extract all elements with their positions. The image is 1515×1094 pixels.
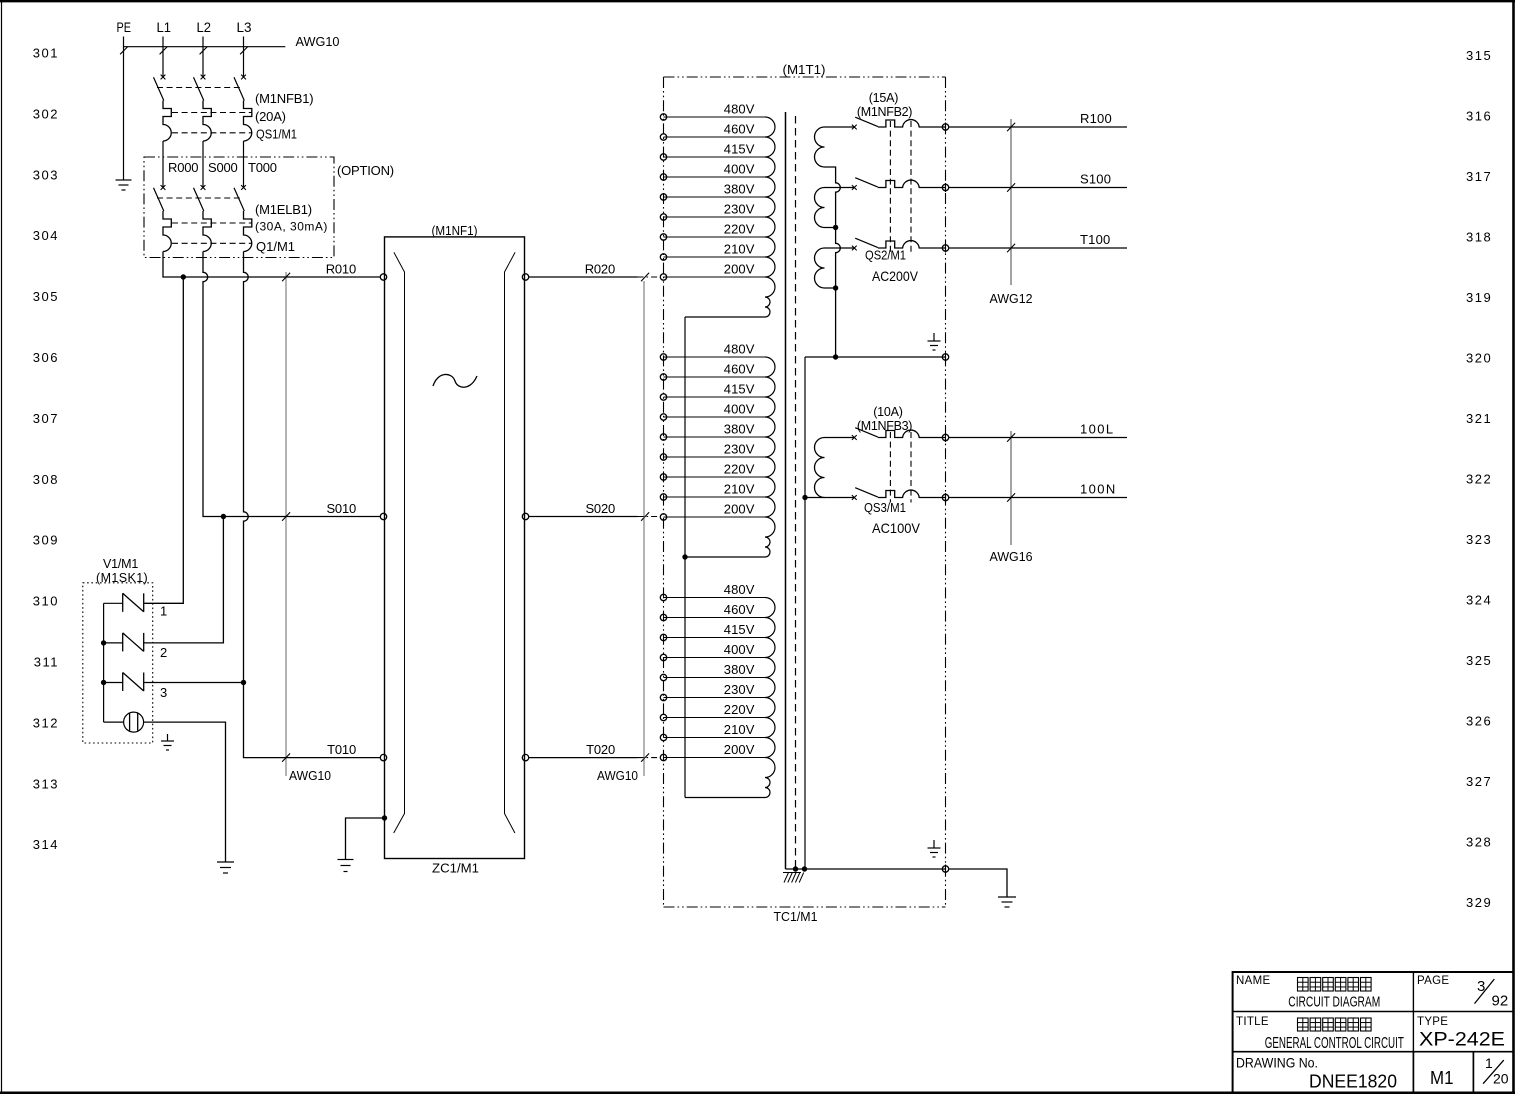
svg-text:307: 307 bbox=[33, 411, 59, 426]
svg-text:220V: 220V bbox=[724, 222, 755, 237]
svg-text:T100: T100 bbox=[1080, 232, 1110, 247]
svg-text:L2: L2 bbox=[197, 20, 212, 35]
svg-text:322: 322 bbox=[1466, 471, 1492, 486]
svg-text:305: 305 bbox=[33, 289, 59, 304]
svg-text:415V: 415V bbox=[724, 142, 755, 157]
svg-text:(M1ELB1): (M1ELB1) bbox=[255, 202, 312, 217]
svg-text:325: 325 bbox=[1466, 653, 1492, 668]
svg-text:400V: 400V bbox=[724, 402, 755, 417]
svg-text:312: 312 bbox=[33, 715, 59, 730]
svg-text:QS2/M1: QS2/M1 bbox=[865, 249, 906, 263]
svg-text:302: 302 bbox=[33, 106, 59, 121]
svg-text:T010: T010 bbox=[327, 742, 356, 757]
svg-text:311: 311 bbox=[34, 655, 59, 670]
svg-text:210V: 210V bbox=[724, 482, 755, 497]
svg-text:ZC1/M1: ZC1/M1 bbox=[432, 861, 479, 876]
svg-text:Q1/M1: Q1/M1 bbox=[256, 239, 295, 254]
svg-text:(M1NFB2): (M1NFB2) bbox=[857, 105, 912, 119]
svg-text:T000: T000 bbox=[248, 160, 277, 175]
svg-text:AWG12: AWG12 bbox=[990, 291, 1033, 306]
svg-text:220V: 220V bbox=[724, 702, 755, 717]
svg-text:327: 327 bbox=[1466, 774, 1492, 789]
svg-text:200V: 200V bbox=[724, 502, 755, 517]
svg-text:AC100V: AC100V bbox=[872, 520, 921, 536]
svg-text:230V: 230V bbox=[724, 202, 755, 217]
svg-text:S000: S000 bbox=[208, 160, 238, 175]
svg-text:L1: L1 bbox=[157, 20, 172, 35]
svg-text:S100: S100 bbox=[1080, 172, 1111, 187]
svg-text:L3: L3 bbox=[237, 20, 252, 35]
svg-text:R020: R020 bbox=[585, 261, 615, 276]
svg-text:380V: 380V bbox=[724, 422, 755, 437]
svg-text:XP-242E: XP-242E bbox=[1419, 1030, 1505, 1051]
svg-text:(M1NF1): (M1NF1) bbox=[432, 223, 478, 238]
svg-text:200V: 200V bbox=[724, 742, 755, 757]
svg-text:TYPE: TYPE bbox=[1417, 1016, 1448, 1028]
svg-text:(M1NFB3): (M1NFB3) bbox=[857, 419, 912, 433]
svg-text:210V: 210V bbox=[724, 242, 755, 257]
svg-text:310: 310 bbox=[33, 594, 59, 609]
svg-text:V1/M1: V1/M1 bbox=[103, 557, 138, 571]
svg-text:92: 92 bbox=[1492, 992, 1509, 1009]
svg-text:CIRCUIT DIAGRAM: CIRCUIT DIAGRAM bbox=[1288, 994, 1380, 1011]
svg-text:303: 303 bbox=[33, 167, 59, 182]
svg-text:220V: 220V bbox=[724, 462, 755, 477]
svg-text:315: 315 bbox=[1466, 48, 1492, 63]
svg-text:460V: 460V bbox=[724, 122, 755, 137]
svg-text:S010: S010 bbox=[326, 501, 356, 516]
svg-text:480V: 480V bbox=[724, 342, 755, 357]
svg-text:326: 326 bbox=[1466, 713, 1492, 728]
svg-text:AWG10: AWG10 bbox=[597, 768, 638, 783]
svg-text:(M1T1): (M1T1) bbox=[783, 62, 826, 77]
svg-text:317: 317 bbox=[1466, 169, 1492, 184]
svg-text:309: 309 bbox=[33, 533, 59, 548]
svg-text:1: 1 bbox=[160, 604, 167, 619]
svg-text:PAGE: PAGE bbox=[1417, 975, 1449, 987]
svg-text:(OPTION): (OPTION) bbox=[337, 163, 394, 178]
svg-text:TC1/M1: TC1/M1 bbox=[774, 909, 818, 924]
svg-text:321: 321 bbox=[1466, 411, 1492, 426]
svg-text:QS3/M1: QS3/M1 bbox=[864, 501, 906, 515]
svg-text:308: 308 bbox=[33, 472, 59, 487]
svg-text:320: 320 bbox=[1466, 350, 1492, 365]
svg-text:(10A): (10A) bbox=[873, 405, 903, 419]
svg-text:R100: R100 bbox=[1080, 111, 1112, 126]
svg-text:PE: PE bbox=[117, 20, 132, 35]
svg-text:319: 319 bbox=[1466, 290, 1492, 305]
svg-text:R000: R000 bbox=[168, 160, 198, 175]
svg-text:DRAWING No.: DRAWING No. bbox=[1236, 1055, 1318, 1071]
svg-text:316: 316 bbox=[1466, 108, 1492, 123]
svg-text:200V: 200V bbox=[724, 262, 755, 277]
svg-text:304: 304 bbox=[33, 228, 59, 243]
svg-text:318: 318 bbox=[1466, 229, 1492, 244]
svg-text:313: 313 bbox=[33, 776, 59, 791]
svg-text:329: 329 bbox=[1466, 895, 1492, 910]
svg-text:323: 323 bbox=[1466, 532, 1492, 547]
svg-text:3: 3 bbox=[160, 685, 167, 700]
svg-text:324: 324 bbox=[1466, 592, 1492, 607]
svg-text:328: 328 bbox=[1466, 834, 1492, 849]
svg-text:TITLE: TITLE bbox=[1236, 1016, 1269, 1028]
svg-text:(20A): (20A) bbox=[255, 109, 286, 124]
svg-text:210V: 210V bbox=[724, 722, 755, 737]
svg-text:S020: S020 bbox=[585, 501, 615, 516]
svg-text:301: 301 bbox=[33, 46, 59, 61]
svg-text:QS1/M1: QS1/M1 bbox=[256, 127, 297, 142]
svg-text:(15A): (15A) bbox=[869, 91, 899, 105]
svg-text:R010: R010 bbox=[326, 262, 356, 277]
svg-text:480V: 480V bbox=[724, 102, 755, 117]
svg-text:DNEE1820: DNEE1820 bbox=[1309, 1071, 1397, 1091]
svg-text:380V: 380V bbox=[724, 182, 755, 197]
svg-text:T020: T020 bbox=[586, 742, 615, 757]
svg-text:2: 2 bbox=[160, 645, 167, 660]
svg-text:20: 20 bbox=[1493, 1071, 1509, 1087]
svg-text:(M1NFB1): (M1NFB1) bbox=[255, 91, 313, 106]
svg-text:230V: 230V bbox=[724, 682, 755, 697]
svg-text:1: 1 bbox=[1485, 1055, 1493, 1071]
svg-text:AC200V: AC200V bbox=[872, 268, 919, 284]
svg-text:100L: 100L bbox=[1080, 422, 1115, 437]
svg-text:(M1SK1): (M1SK1) bbox=[96, 571, 148, 585]
svg-text:AWG10: AWG10 bbox=[289, 768, 331, 783]
svg-text:415V: 415V bbox=[724, 382, 755, 397]
svg-text:230V: 230V bbox=[724, 442, 755, 457]
svg-text:100N: 100N bbox=[1080, 482, 1117, 497]
svg-text:380V: 380V bbox=[724, 662, 755, 677]
svg-text:314: 314 bbox=[33, 837, 59, 852]
svg-text:AWG10: AWG10 bbox=[296, 34, 340, 49]
svg-text:306: 306 bbox=[33, 350, 59, 365]
svg-text:415V: 415V bbox=[724, 622, 755, 637]
svg-text:400V: 400V bbox=[724, 642, 755, 657]
svg-text:M1: M1 bbox=[1430, 1067, 1454, 1088]
svg-text:480V: 480V bbox=[724, 582, 755, 597]
svg-text:400V: 400V bbox=[724, 162, 755, 177]
svg-text:NAME: NAME bbox=[1236, 975, 1270, 987]
svg-text:460V: 460V bbox=[724, 362, 755, 377]
svg-text:(30A, 30mA): (30A, 30mA) bbox=[255, 220, 328, 234]
svg-text:GENERAL CONTROL CIRCUIT: GENERAL CONTROL CIRCUIT bbox=[1265, 1035, 1404, 1052]
svg-text:AWG16: AWG16 bbox=[990, 549, 1033, 564]
svg-text:460V: 460V bbox=[724, 602, 755, 617]
